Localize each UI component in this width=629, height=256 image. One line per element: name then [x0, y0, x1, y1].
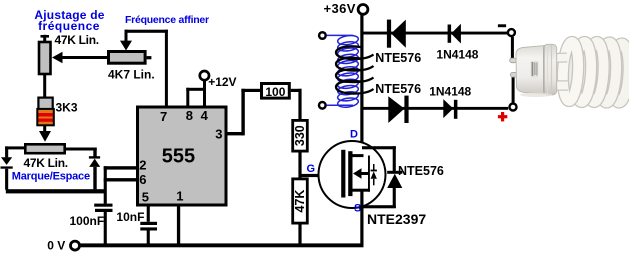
svg-text:NTE576: NTE576	[375, 51, 421, 65]
lamp base label	[531, 61, 539, 78]
svg-text:G: G	[307, 163, 316, 175]
resistor R3 330 (boxed, vertical)	[293, 120, 308, 151]
wire pins 8,4 to +12V terminal	[186, 81, 206, 107]
terminal +12V	[200, 71, 209, 80]
MOSFET channel bar	[348, 151, 352, 196]
svg-text:100nF: 100nF	[70, 214, 105, 228]
wire 100R to 330R	[291, 89, 302, 120]
svg-text:4K7 Lin.: 4K7 Lin.	[108, 68, 155, 82]
wire 3K3 to mark/space pot wiper (arrow down)	[39, 126, 51, 142]
svg-text:1N4148: 1N4148	[436, 48, 478, 62]
diode D3 NTE576 (top row)	[387, 20, 406, 48]
svg-text:+36V: +36V	[324, 1, 356, 16]
terminal transformer primary bottom	[319, 102, 326, 109]
wire bottom rectifier row	[362, 107, 508, 110]
potentiometer VR3 47K Lin mark/space	[25, 144, 64, 153]
svg-text:330: 330	[293, 125, 307, 146]
wire 0V bus	[81, 243, 364, 247]
lamp base	[516, 44, 557, 97]
capacitor C1 100nF	[94, 204, 112, 245]
MOSFET gate bar	[341, 150, 345, 198]
svg-text:6: 6	[139, 172, 146, 187]
terminal plus	[510, 104, 517, 111]
diode D5 NTE576 (bottom row)	[388, 96, 408, 123]
wire bus joining D1/D2 bottoms to pin2/6 node	[6, 189, 107, 193]
wire VR3 left end to diode D1	[5, 146, 25, 157]
svg-text:555: 555	[162, 146, 195, 168]
terminal transformer primary top	[319, 32, 326, 39]
svg-text:2: 2	[139, 158, 146, 173]
potentiometer VR1 47K Lin (vertical, frequency adjust)	[39, 35, 51, 74]
svg-text:+12V: +12V	[208, 75, 236, 89]
terminal 0V	[71, 241, 80, 250]
wire main vertical +36V to MOSFET drain	[360, 15, 363, 157]
label: Ajustage de fréquence	[34, 8, 104, 33]
MOSFET source stub	[353, 189, 370, 192]
svg-text:S: S	[354, 203, 361, 215]
wire node vertical to 100nF and pins 2,6	[104, 166, 137, 204]
lamp CFL (photo-style)	[510, 42, 629, 103]
svg-text:NTE576: NTE576	[398, 164, 444, 178]
MOSFET body arrow stub	[353, 168, 369, 178]
wire lamp pin to plus terminal	[512, 77, 515, 103]
svg-text:1N4148: 1N4148	[429, 84, 471, 98]
label minus sign	[498, 24, 506, 27]
MOSFET Q1 circle	[319, 141, 386, 208]
lamp spiral tube	[561, 42, 629, 103]
transformer T1 secondary winding (black)	[336, 46, 374, 93]
wire MOSFET source to 0V bus	[360, 190, 363, 244]
resistor R4 47K (boxed, vertical)	[293, 179, 308, 223]
svg-text:47K Lin.: 47K Lin.	[24, 156, 68, 170]
wire minus terminal to lamp pin	[511, 37, 514, 59]
wire VR1 bottom lead to 3K3	[43, 74, 46, 97]
svg-text:10nF: 10nF	[116, 210, 144, 224]
MOSFET body diode	[371, 164, 377, 185]
svg-text:NTE576: NTE576	[375, 82, 421, 96]
diode D1 (left, mark/space)	[1, 157, 13, 190]
wire pin 3 to 100R	[228, 89, 261, 136]
resistor R2 100 (boxed)	[262, 84, 290, 99]
svg-text:7: 7	[160, 109, 167, 124]
wire top rectifier row	[362, 32, 507, 35]
IC U1 555 timer	[138, 107, 227, 205]
svg-text:D: D	[350, 129, 358, 141]
MOSFET drain stub	[353, 154, 364, 157]
svg-text:8: 8	[186, 108, 193, 123]
svg-text:fréquence: fréquence	[38, 19, 100, 33]
wire wiper of VR1 to 4K7 pot left end	[52, 52, 107, 63]
terminal +36V	[358, 4, 368, 14]
svg-text:3: 3	[215, 127, 222, 142]
label plus sign (red)	[498, 112, 507, 121]
capacitor C2 10nF	[140, 207, 157, 245]
terminal minus	[508, 29, 515, 36]
svg-text:5: 5	[142, 189, 149, 204]
svg-text:47K Lin.: 47K Lin.	[55, 33, 99, 47]
diode D7 NTE576 flyback across MOSFET	[362, 146, 402, 208]
wire 47K bottom to 0V bus	[298, 224, 301, 246]
svg-text:1: 1	[176, 188, 183, 203]
MOSFET inner source link	[368, 156, 370, 192]
potentiometer VR2 4K7 Lin (horizontal, fine frequency)	[109, 52, 152, 64]
wire 330R to 47K divider with gate tap	[298, 153, 301, 178]
svg-text:4: 4	[201, 108, 209, 123]
wire gate: divider tap to MOSFET gate	[300, 174, 342, 177]
svg-text:NTE2397: NTE2397	[367, 211, 426, 227]
svg-text:0 V: 0 V	[47, 239, 65, 253]
svg-text:100: 100	[265, 85, 285, 99]
diode D6 1N4148 (bottom row)	[443, 99, 457, 119]
svg-text:Fréquence affiner: Fréquence affiner	[125, 14, 209, 26]
resistor R1 3K3 (colour-band body)	[37, 98, 54, 126]
diode D4 1N4148 (top row)	[448, 24, 461, 44]
wire 4K7 wiper up and over to 555 pin 7	[120, 30, 168, 106]
lamp neck tubes	[554, 58, 568, 86]
diode D2 (right, mark/space)	[89, 156, 100, 189]
svg-text:3K3: 3K3	[56, 101, 78, 115]
transformer T1 primary winding (blue)	[327, 34, 359, 108]
svg-text:47K: 47K	[293, 190, 307, 213]
wire VR3 right end to diode D2	[65, 148, 97, 157]
svg-text:Marque/Espace: Marque/Espace	[12, 171, 90, 183]
lamp pins	[510, 58, 517, 63]
wire pin 1 to 0V bus	[177, 207, 180, 245]
